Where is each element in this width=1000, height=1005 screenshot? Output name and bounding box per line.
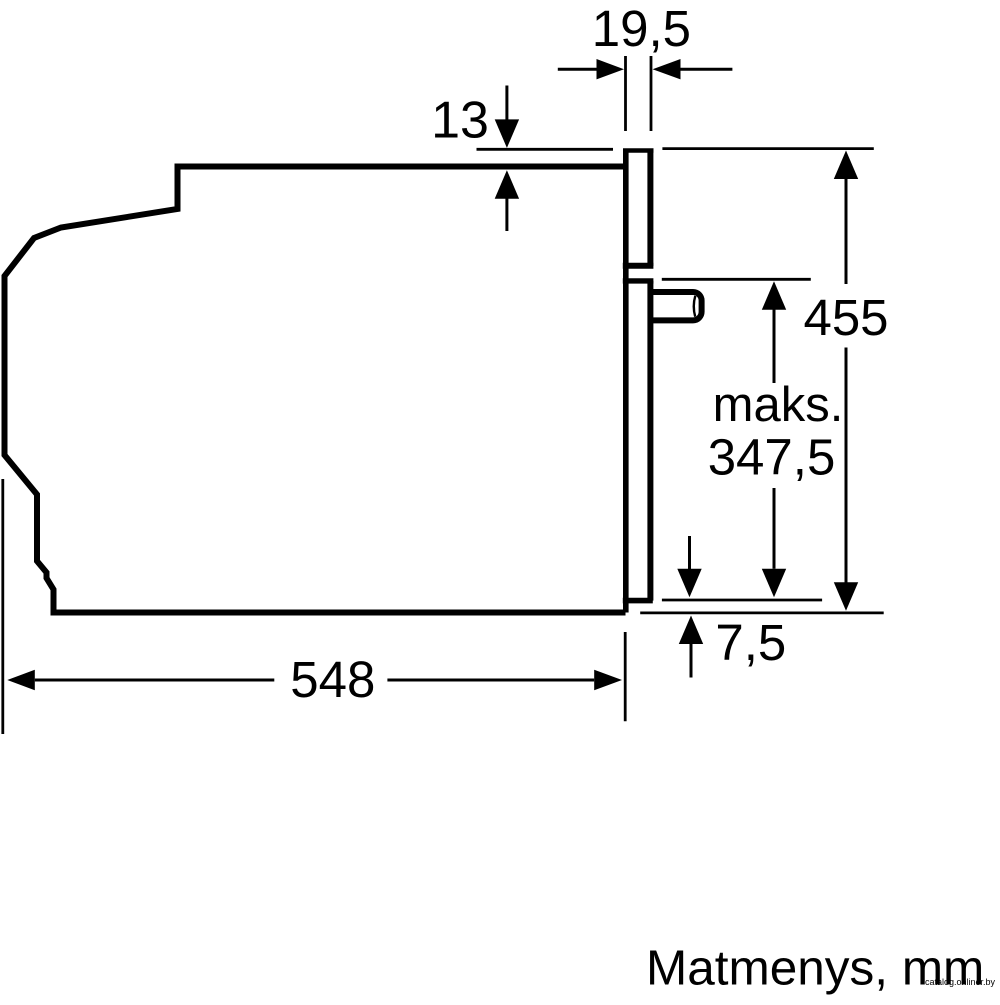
svg-text:maks.: maks. [713,378,844,432]
dim maks 347,5 up arrow [762,281,786,310]
dim 455 top arrow [834,151,858,180]
dim 7,5 down arrow [688,536,691,569]
niche top line right / 455 top extension [662,147,873,150]
svg-text:catalog.onliner.by: catalog.onliner.by [925,977,996,987]
handle cap inner line [694,296,696,317]
svg-text:548: 548 [290,651,375,708]
548 right extension line [624,632,627,721]
548 left extension line [1,479,4,734]
svg-text:19,5: 19,5 [592,0,691,57]
dim 548 left arrow [7,670,35,690]
dim 13 down arrow [505,86,508,121]
dim 13 up arrow [495,170,519,199]
maks 347,5 top extension line [662,278,811,281]
extension line 19,5 right [650,56,653,131]
door front line [647,281,653,601]
svg-text:Matmenys, mm: Matmenys, mm [646,941,984,996]
front frame top bar [623,148,654,153]
front frame right edge [647,149,653,267]
svg-text:7,5: 7,5 [715,614,786,671]
niche top line left [477,148,614,151]
oven body outline [5,167,626,613]
dim 455 lower segment + bottom arrow [845,348,848,583]
dim 548 right arrow [387,679,594,682]
door top bar [623,278,654,283]
svg-text:13: 13 [431,92,489,150]
door bottom extension line [662,599,822,602]
dim 19,5 right arrow [681,68,733,71]
dim 19,5 left arrow [558,68,597,71]
dim 7,5 up arrow [679,616,703,645]
dim maks 347,5 down arrow [773,488,776,569]
svg-text:455: 455 [803,289,888,346]
oven bottom extension line [640,612,884,615]
extension line 19,5 left [624,56,627,131]
front frame bottom bar [623,263,654,269]
svg-text:347,5: 347,5 [708,429,836,486]
oven front wall [623,149,629,613]
door bottom bar [623,598,653,604]
door handle [650,292,702,320]
